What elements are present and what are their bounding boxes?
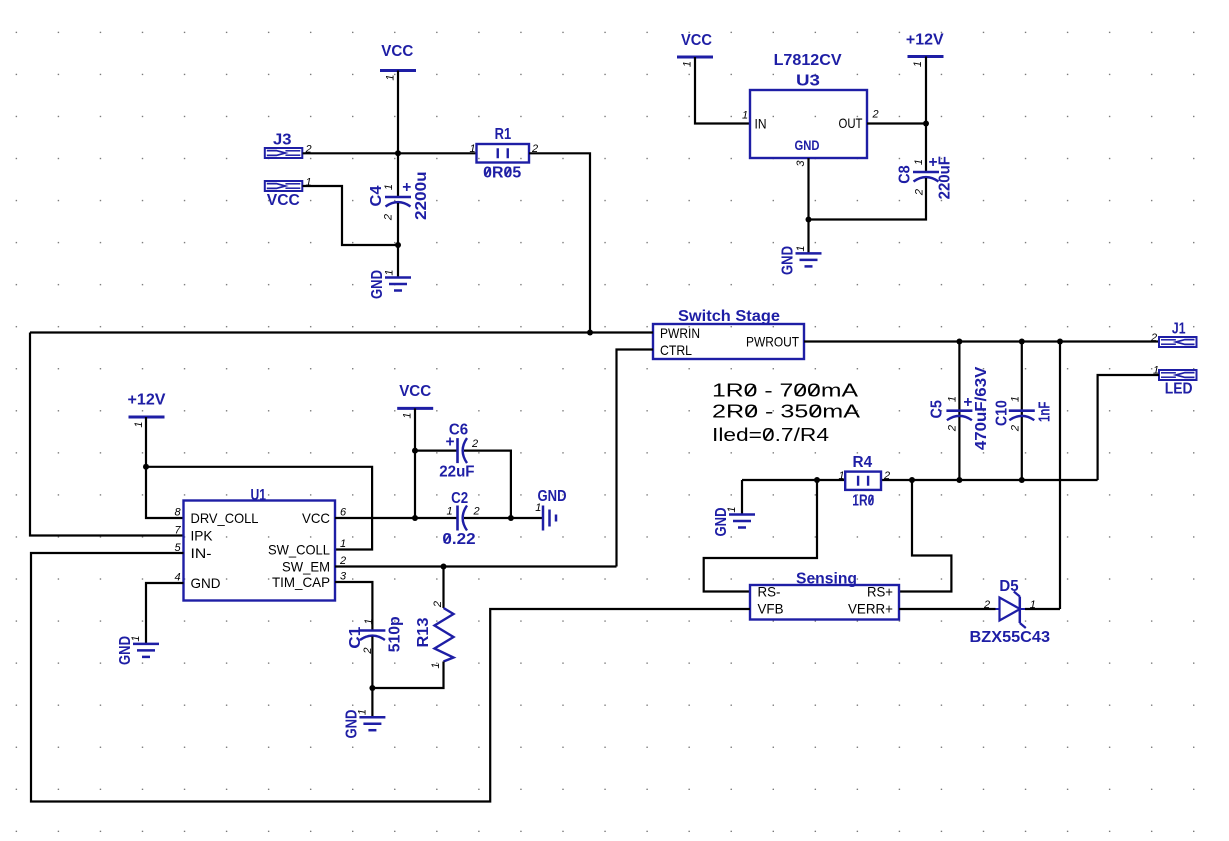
pin 2 of C10 [1010,425,1022,432]
svg-text:0R05: 0R05 [483,165,521,182]
svg-text:C1: C1 [347,626,364,648]
pin 1 of +12V top-right [912,61,924,67]
svg-text:R1: R1 [495,126,512,143]
junction VCC vertical / C2 row [412,515,418,521]
junction PWROUT/D5 net [1057,339,1063,345]
wire VERR+ to D5 anode [899,608,996,610]
regulator U3 L7812CV [750,52,867,158]
power symbol +12V (left) [128,392,167,418]
ground symbol GND (below C1) [343,710,385,739]
svg-text:1: 1 [340,538,346,550]
pin 1 of GND right of C2 [535,502,541,514]
svg-text:U3: U3 [796,73,820,90]
svg-text:C8: C8 [897,165,914,184]
wire D5 cathode net up to PWROUT [1059,342,1061,610]
pin 1 of R1 [469,143,475,155]
svg-text:1: 1 [726,506,738,512]
svg-text:PWRIN: PWRIN [660,325,700,341]
wire U3 GND pin to ground [807,158,809,253]
svg-text:CTRL: CTRL [660,342,692,358]
pin 1 of U3 [742,110,748,122]
svg-text:2: 2 [382,214,394,221]
wire U1 GND pin to ground [146,583,184,644]
junction PWROUT/C5 [956,339,962,345]
wire left loop PWRIN to U1 IPK [30,333,184,536]
svg-text:1R0 - 700mA: 1R0 - 700mA [712,381,858,401]
wire R4 left stub to GND [741,480,743,515]
hierarchical block Switch Stage [653,308,804,359]
wire R4 row right segment [881,479,1098,481]
svg-text:2: 2 [432,601,444,608]
svg-text:8: 8 [174,507,181,519]
svg-text:1: 1 [535,502,541,514]
pin 2 of D5 [983,599,990,611]
svg-text:1: 1 [682,61,694,67]
capacitor C10 1nF [993,400,1053,426]
wire +12V branch to SW_COLL [146,467,372,550]
power symbol VCC (above U3) [677,32,713,57]
pin 2 of R4 [883,470,890,482]
pin 1 of VCC above C6 [402,412,414,418]
pin 2 of C8 [914,189,926,196]
junction R1/PWRIN [587,330,593,336]
pin 1 of U1 [340,538,346,550]
svg-text:GND: GND [191,575,221,591]
wire VCC power to R1 row node [397,71,399,197]
svg-text:7: 7 [174,525,181,537]
svg-text:1: 1 [357,709,369,715]
wire net PWRIN from left loop [30,331,653,333]
svg-text:510p: 510p [387,616,404,652]
pin 1 of C5 [947,396,959,402]
pin 1 of VCC power symbol [385,74,397,80]
svg-text:1: 1 [1010,396,1022,402]
svg-text:1: 1 [130,635,142,641]
svg-text:2: 2 [1010,425,1022,432]
wire net IN-/VFB loop [31,553,750,802]
pin 2 of R13 [432,601,444,608]
pin 3 of U1 [340,571,347,583]
svg-text:1: 1 [795,245,807,251]
wire C2 pin2 to GND [464,517,543,519]
wire TIM_CAP to C1 [335,582,372,631]
svg-text:1: 1 [385,74,397,80]
wire C6 pin2 to C2 row [464,451,511,518]
junction C8/U3-GND node [806,217,812,223]
wire RS+ branch [899,480,951,592]
note text 1R0 - 700mA [712,381,858,401]
wire C6 row [415,450,458,452]
wire SW_EM row to CTRL vertical [335,565,617,567]
wire +12V down through node to C8 [925,57,927,173]
connector J1 [1159,321,1197,347]
junction PWROUT/C10 [1019,339,1025,345]
junction VCC / C6 branch [412,448,418,454]
svg-text:VERR+: VERR+ [848,601,893,617]
svg-text:C2: C2 [451,490,468,507]
svg-text:VCC: VCC [681,32,712,49]
pin 1 of LED [1153,365,1159,377]
pin 2 of U3 [871,109,878,121]
pin 2 of C6 [471,438,478,450]
junction node VCC/J3/C4/R1 [395,150,401,156]
svg-text:1: 1 [838,470,844,482]
svg-text:PWROUT: PWROUT [746,333,799,349]
svg-text:IN-: IN- [191,545,212,561]
junction C4/VCCconn/GND node [395,242,401,248]
svg-text:GND: GND [795,137,820,153]
capacitor C8 220uF [897,154,954,199]
svg-text:+12V: +12V [906,32,944,49]
wire VCC to U3 IN [695,57,750,124]
wire R13 top to SW_EM [442,567,444,609]
pin 2 of J1 [1150,332,1157,344]
pin 7 of U1 [174,525,181,537]
svg-text:VCC: VCC [399,383,431,400]
wire R13 bottom to C1 node [372,662,443,689]
svg-text:0.22: 0.22 [442,531,475,548]
pin 1 of +12V left [133,421,145,427]
wire VCC down to C2 row [414,408,416,518]
wire R1 pin2 down to PWRIN net [529,153,590,332]
wire U3 OUT to +12V node [867,122,926,124]
svg-text:LED: LED [1165,380,1193,397]
note text 2R0 - 350mA [712,402,860,422]
svg-text:RS+: RS+ [867,584,893,600]
svg-text:2: 2 [471,438,478,450]
pin 2 of C4 [382,214,394,221]
pin 2 of C2 [472,506,479,518]
pin 1 of C4 [383,184,395,190]
power symbol +12V (top-right) [906,32,944,57]
pin 4 of U1 [174,572,180,584]
svg-text:VFB: VFB [758,601,784,617]
pin 1 of C1 [363,618,375,624]
junction C6 / C2 row [508,515,514,521]
wire C4 bottom to GND [397,203,399,278]
svg-text:RS-: RS- [758,584,781,600]
svg-text:1: 1 [133,421,145,427]
svg-text:IPK: IPK [191,528,214,544]
capacitor C4 2200u [368,171,430,220]
svg-text:1nF: 1nF [1037,402,1054,423]
pin 1 of GND left of R4 [726,506,738,512]
ground symbol GND (below C4) [369,270,411,299]
svg-text:SW_EM: SW_EM [282,559,330,575]
svg-text:2: 2 [914,189,926,196]
resistor R1 0R05 [477,126,530,182]
wire LED connector to R4 net [1098,375,1159,480]
ground symbol GND (below U3) [780,246,822,275]
pin 1 of D5 [1030,599,1036,611]
svg-text:SW_COLL: SW_COLL [268,542,330,558]
junction R4 row / RS- branch [814,477,820,483]
svg-text:C5: C5 [928,400,945,419]
svg-text:3: 3 [795,160,807,167]
svg-text:1: 1 [446,506,452,518]
svg-text:22uF: 22uF [439,463,474,480]
wire VCC connector to C4 bottom node [303,186,399,245]
junction +12V branch [143,464,149,470]
junction C1 / R13 bottom [369,685,375,691]
svg-text:2200u: 2200u [413,171,430,220]
svg-text:2: 2 [871,109,878,121]
wire C1 bottom to GND [371,637,373,718]
junction R4 row / RS+ branch [909,477,915,483]
ground symbol GND (right of C2) [538,488,567,531]
resistor R13 (zigzag) [415,608,454,662]
pin 1 of R4 [838,470,844,482]
svg-text:2: 2 [883,470,890,482]
svg-text:D5: D5 [999,578,1019,595]
svg-text:J3: J3 [273,132,292,149]
connector J3 [265,132,303,159]
svg-text:IN: IN [755,116,767,132]
pin 5 of U1 [174,542,181,554]
svg-text:2R0 - 350mA: 2R0 - 350mA [712,402,860,422]
junction SW_EM / R13 [441,564,447,570]
svg-text:1: 1 [912,61,924,67]
svg-text:1: 1 [947,396,959,402]
wire C5 to PWROUT and R4 net [958,342,960,481]
pin 1 of VCC above U3 [682,61,694,67]
pin 6 of U1 [340,507,347,519]
svg-text:Iled=0.7/R4: Iled=0.7/R4 [712,425,829,445]
svg-text:1: 1 [384,269,396,275]
connector VCC (J2) [265,181,303,209]
wire C10 vertical [1021,342,1023,481]
pin 1 of C8 [913,159,925,165]
svg-text:L7812CV: L7812CV [774,52,843,69]
svg-text:+: + [402,179,411,196]
svg-text:220uF: 220uF [936,156,953,199]
svg-text:+: + [928,154,937,171]
pin 8 of U1 [174,507,181,519]
capacitor C6 22uF [439,422,474,481]
svg-text:3: 3 [340,571,347,583]
zener diode D5 BZX55C43 [970,578,1051,646]
pin 2 of R1 [531,143,538,155]
pin 2 of U1 [339,555,346,567]
wire C8 bottom to U3 GND net [809,178,927,220]
pin 1 of VCC connector [305,177,311,189]
svg-text:470uF/63V: 470uF/63V [973,366,990,450]
note text Iled=0.7/R4 [712,425,829,445]
svg-text:GND: GND [538,488,567,505]
svg-text:R4: R4 [853,454,873,471]
svg-text:2: 2 [339,555,346,567]
svg-text:1: 1 [913,159,925,165]
junction R4 row / C10 [1019,477,1025,483]
svg-text:+: + [445,433,454,450]
pin 1 of GND below C1 [357,709,369,715]
pin 2 of C5 [947,425,959,432]
wire R4 row left segment [742,479,845,481]
svg-text:1: 1 [402,412,414,418]
svg-text:2: 2 [983,599,990,611]
wire CTRL to SW_EM net [617,350,654,567]
resistor R4 1R0 [845,454,881,510]
capacitor C2 0.22 [442,490,475,548]
pin 2 of J3 [304,144,311,156]
svg-text:4: 4 [174,572,180,584]
wire +12V down to DRV_COLL [146,417,184,518]
hierarchical block Sensing [750,571,899,620]
svg-text:+: + [963,394,972,411]
power symbol VCC (top-left) [380,43,416,71]
capacitor C1 510p [347,616,404,652]
pin 1 of C10 [1010,396,1022,402]
pin 3 of U3 [795,160,807,167]
svg-text:1: 1 [430,662,442,668]
ic U1 [184,487,336,601]
svg-text:Switch Stage: Switch Stage [678,308,780,325]
power symbol VCC (above C6) [397,383,433,408]
svg-text:1: 1 [469,143,475,155]
pin 1 of GND below C4 [384,269,396,275]
wire D5 cathode to vertical [1025,608,1060,610]
wire U1 VCC pin6 to C2 [335,517,458,519]
pin 1 of GND below U3 [795,245,807,251]
junction R4 row / C5 [956,477,962,483]
svg-text:U1: U1 [251,487,267,504]
svg-text:6: 6 [340,507,347,519]
svg-text:TIM_CAP: TIM_CAP [272,574,330,590]
svg-text:1: 1 [363,618,375,624]
pin 1 of R13 [430,662,442,668]
svg-text:VCC: VCC [302,510,330,526]
svg-text:BZX55C43: BZX55C43 [970,629,1051,646]
svg-text:2: 2 [472,506,479,518]
svg-text:GND: GND [780,246,797,275]
svg-text:R13: R13 [415,617,432,647]
svg-text:VCC: VCC [381,43,413,60]
pin 1 of GND below U1 [130,635,142,641]
svg-text:2: 2 [947,425,959,432]
svg-text:J1: J1 [1172,321,1186,338]
connector LED [1159,370,1197,397]
junction U3 OUT/+12V/C8 [923,121,929,127]
wire RS- branch [704,480,817,592]
svg-text:Sensing: Sensing [796,571,857,588]
wire net PWROUT to J1 [804,340,1159,342]
ground symbol GND (left of R4) [713,508,755,537]
svg-text:C10: C10 [993,400,1010,426]
capacitor C5 470uF/63V [928,366,990,450]
ground symbol GND (below U1) [117,636,159,665]
svg-text:1: 1 [742,110,748,122]
svg-text:DRV_COLL: DRV_COLL [191,510,259,526]
svg-text:2: 2 [1150,332,1157,344]
wire J3 pin2 to R1 pin1 [303,152,477,154]
svg-text:OUT: OUT [839,115,863,131]
pin 1 of C2 [446,506,452,518]
pin 2 of C1 [362,647,374,654]
svg-text:+12V: +12V [128,392,167,409]
svg-text:1: 1 [383,184,395,190]
svg-text:VCC: VCC [267,192,300,209]
